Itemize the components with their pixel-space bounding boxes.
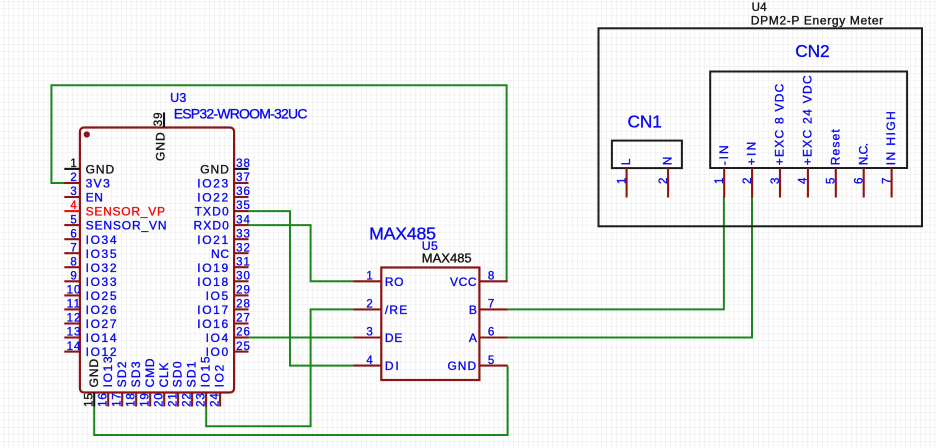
svg-text:5: 5 bbox=[826, 177, 838, 184]
svg-text:+EXC 8 VDC: +EXC 8 VDC bbox=[773, 82, 787, 165]
svg-text:29: 29 bbox=[236, 285, 251, 297]
svg-text:IO32: IO32 bbox=[86, 261, 119, 275]
U3 pin 7 IO35 (left) bbox=[64, 252, 80, 254]
svg-text:28: 28 bbox=[236, 299, 251, 311]
U3 pin 22 SD1 (bottom) bbox=[191, 393, 193, 407]
U3 pin 34 RXD0 (right) bbox=[234, 224, 249, 226]
svg-text:6: 6 bbox=[70, 228, 77, 240]
U3 pin 8 IO32 (left) bbox=[64, 266, 80, 268]
svg-text:9: 9 bbox=[70, 271, 77, 283]
svg-text:26: 26 bbox=[236, 327, 251, 339]
U5 pin 4 DI (left) bbox=[353, 365, 381, 367]
svg-text:19: 19 bbox=[139, 392, 151, 407]
svg-text:GND: GND bbox=[447, 359, 477, 373]
svg-text:SD0: SD0 bbox=[171, 360, 185, 387]
svg-text:18: 18 bbox=[125, 392, 137, 407]
svg-text:CN1: CN1 bbox=[628, 111, 662, 131]
svg-text:A: A bbox=[469, 331, 477, 345]
U3 pin 39 GND (top) bbox=[163, 112, 165, 127]
svg-text:22: 22 bbox=[181, 392, 193, 407]
svg-text:6: 6 bbox=[854, 177, 866, 184]
svg-text:CLK: CLK bbox=[157, 362, 171, 387]
svg-text:IO4: IO4 bbox=[206, 331, 230, 345]
svg-text:NC: NC bbox=[211, 247, 230, 261]
U5 pin 8 VCC (right) bbox=[479, 280, 507, 282]
svg-text:IO35: IO35 bbox=[86, 247, 119, 261]
svg-text:7: 7 bbox=[488, 299, 495, 311]
svg-text:N: N bbox=[661, 156, 675, 165]
U3 pin 25 IO0 (right) bbox=[234, 351, 249, 353]
svg-text:12: 12 bbox=[67, 313, 82, 325]
svg-text:IO2: IO2 bbox=[213, 363, 227, 387]
svg-text:IO34: IO34 bbox=[86, 233, 119, 247]
wire net 3V3: U3 pin2 to U5 pin8 VCC bbox=[51, 85, 506, 281]
U3 pin 37 IO23 (right) bbox=[234, 182, 249, 184]
U3 pin 9 IO33 (left) bbox=[64, 280, 80, 282]
svg-text:3: 3 bbox=[770, 177, 782, 184]
svg-text:14: 14 bbox=[67, 341, 82, 353]
svg-text:8: 8 bbox=[70, 256, 77, 268]
energy meter U4 outline box bbox=[599, 28, 923, 226]
svg-text:IO22: IO22 bbox=[197, 191, 230, 205]
U3 pin 33 IO21 (right) bbox=[234, 238, 249, 240]
svg-text:+IN: +IN bbox=[745, 139, 759, 165]
U3 pin 10 IO25 (left) bbox=[64, 294, 80, 296]
svg-text:DPM2-P Energy Meter: DPM2-P Energy Meter bbox=[751, 14, 884, 28]
svg-text:35: 35 bbox=[236, 200, 251, 212]
svg-text:2: 2 bbox=[366, 299, 373, 311]
svg-text:20: 20 bbox=[153, 392, 165, 407]
svg-text:4: 4 bbox=[70, 200, 77, 212]
svg-text:11: 11 bbox=[67, 299, 82, 311]
svg-text:GND: GND bbox=[200, 163, 230, 177]
svg-text:33: 33 bbox=[236, 228, 251, 240]
svg-text:RXD0: RXD0 bbox=[194, 219, 230, 233]
U3 pin 12 IO27 (left) bbox=[64, 322, 80, 324]
svg-text:IO33: IO33 bbox=[86, 275, 119, 289]
svg-text:TXD0: TXD0 bbox=[195, 205, 230, 219]
svg-text:15: 15 bbox=[83, 392, 95, 407]
wire net IO15: U3 pin23 to U5 pin2 /RE bbox=[206, 309, 353, 426]
U3 pin 4 SENSOR_VP (left) bbox=[64, 210, 80, 212]
U3 pin 31 IO19 (right) bbox=[234, 266, 249, 268]
svg-text:VCC: VCC bbox=[450, 275, 477, 289]
svg-text:1: 1 bbox=[714, 177, 726, 184]
svg-text:IO17: IO17 bbox=[197, 303, 230, 317]
U3 pin 21 SD0 (bottom) bbox=[177, 393, 179, 407]
svg-text:2: 2 bbox=[658, 177, 670, 184]
CN2 pin 5 Reset bbox=[835, 168, 837, 198]
svg-text:4: 4 bbox=[366, 355, 373, 367]
wire net GND: U3 pin15 to U5 pin5 GND bbox=[94, 366, 507, 435]
svg-text:U4: U4 bbox=[752, 2, 768, 14]
svg-text:13: 13 bbox=[67, 327, 82, 339]
svg-text:U3: U3 bbox=[170, 91, 187, 105]
svg-text:37: 37 bbox=[236, 172, 251, 184]
RS-485 transceiver U5 body bbox=[381, 268, 479, 381]
svg-text:30: 30 bbox=[236, 271, 251, 283]
ESP32 module U3 body bbox=[80, 128, 234, 393]
U3 pin 30 IO18 (right) bbox=[234, 280, 249, 282]
svg-text:5: 5 bbox=[488, 355, 495, 367]
svg-text:34: 34 bbox=[236, 214, 251, 226]
svg-text:3V3: 3V3 bbox=[86, 177, 112, 191]
svg-text:IO15: IO15 bbox=[199, 355, 213, 388]
svg-text:17: 17 bbox=[111, 392, 123, 407]
U3 pin 29 IO5 (right) bbox=[234, 294, 249, 296]
U3 pin 13 IO14 (left) bbox=[64, 336, 80, 338]
svg-text:21: 21 bbox=[167, 392, 179, 407]
U3 pin 27 IO16 (right) bbox=[234, 322, 249, 324]
wire net A: U5 pin6 to CN2 pin2 +IN bbox=[508, 196, 752, 337]
U3 pin 6 IO34 (left) bbox=[64, 238, 80, 240]
svg-text:10: 10 bbox=[67, 285, 82, 297]
wire net IO4: U3 pin26 to U5 pin3 DE bbox=[249, 337, 354, 339]
svg-text:16: 16 bbox=[97, 392, 109, 407]
svg-text:ESP32-WROOM-32UC: ESP32-WROOM-32UC bbox=[174, 105, 308, 121]
svg-text:3: 3 bbox=[70, 186, 77, 198]
U5 pin 5 GND (right) bbox=[479, 365, 507, 367]
U3 pin 3 EN (left) bbox=[64, 196, 80, 198]
svg-text:IO13: IO13 bbox=[101, 355, 115, 388]
U3 pin 1 GND (left) bbox=[64, 168, 80, 170]
svg-text:38: 38 bbox=[236, 158, 251, 170]
connector CN1 body bbox=[612, 141, 682, 169]
svg-text:Reset: Reset bbox=[828, 128, 842, 165]
U3 pin 32 NC (right) bbox=[234, 252, 249, 254]
CN2 pin 6 N.C. bbox=[863, 168, 865, 198]
U3 pin 18 SD3 (bottom) bbox=[135, 393, 137, 407]
wire net B: U5 pin7 to CN2 pin1 -IN bbox=[508, 196, 724, 309]
svg-text:24: 24 bbox=[209, 392, 221, 407]
svg-text:IN HIGH: IN HIGH bbox=[884, 110, 898, 166]
svg-text:36: 36 bbox=[236, 186, 251, 198]
svg-text:IO19: IO19 bbox=[197, 261, 230, 275]
svg-text:7: 7 bbox=[881, 177, 893, 184]
svg-text:39: 39 bbox=[153, 112, 165, 127]
svg-text:RO: RO bbox=[385, 275, 404, 289]
CN1 pin 2 N bbox=[667, 168, 669, 197]
svg-text:8: 8 bbox=[488, 271, 495, 283]
svg-text:1: 1 bbox=[366, 271, 373, 283]
U5 pin 1 RO (left) bbox=[353, 280, 381, 282]
U3 pin 35 TXD0 (right) bbox=[234, 210, 249, 212]
svg-text:25: 25 bbox=[236, 341, 251, 353]
U5 pin 7 B (right) bbox=[479, 308, 507, 310]
svg-text:IO23: IO23 bbox=[197, 177, 230, 191]
svg-text:SENSOR_VP: SENSOR_VP bbox=[86, 205, 166, 219]
U5 pin 6 A (right) bbox=[479, 336, 507, 338]
connector CN2 body bbox=[710, 72, 907, 169]
svg-text:3: 3 bbox=[366, 327, 373, 339]
svg-text:GND: GND bbox=[87, 358, 101, 388]
svg-text:IO26: IO26 bbox=[86, 303, 119, 317]
svg-text:CMD: CMD bbox=[143, 358, 157, 388]
svg-text:1: 1 bbox=[616, 177, 628, 184]
CN2 pin 2 +IN bbox=[751, 168, 753, 198]
svg-text:4: 4 bbox=[798, 177, 810, 184]
U3 pin 23 IO15 (bottom) bbox=[205, 393, 207, 407]
svg-text:1: 1 bbox=[70, 158, 77, 170]
svg-text:GND: GND bbox=[154, 131, 168, 161]
CN2 pin 3 +EXC 8 VDC bbox=[779, 168, 781, 198]
svg-text:DI: DI bbox=[385, 359, 401, 373]
U3 pin 36 IO22 (right) bbox=[234, 196, 249, 198]
U3 pin 11 IO26 (left) bbox=[64, 308, 80, 310]
svg-text:IO18: IO18 bbox=[197, 275, 230, 289]
svg-text:GND: GND bbox=[86, 163, 116, 177]
svg-text:31: 31 bbox=[236, 256, 251, 268]
svg-text:SD1: SD1 bbox=[185, 360, 199, 387]
svg-text:IO14: IO14 bbox=[86, 331, 119, 345]
U3 pin 19 CMD (bottom) bbox=[149, 393, 151, 407]
svg-text:MAX485: MAX485 bbox=[422, 250, 472, 265]
svg-text:IO25: IO25 bbox=[86, 289, 119, 303]
U3 pin 20 CLK (bottom) bbox=[163, 393, 165, 407]
U3 pin 16 IO13 (bottom) bbox=[107, 393, 109, 407]
svg-text:2: 2 bbox=[742, 177, 754, 184]
svg-text:2: 2 bbox=[70, 172, 77, 184]
wire net TXD0: U3 pin35 to U5 pin4 DI bbox=[249, 211, 354, 366]
CN2 pin 7 IN HIGH bbox=[891, 168, 893, 198]
svg-text:SENSOR_VN: SENSOR_VN bbox=[86, 219, 168, 233]
CN2 pin 4 +EXC 24 VDC bbox=[807, 168, 809, 198]
svg-text:SD2: SD2 bbox=[115, 360, 129, 387]
U3 pin 28 IO17 (right) bbox=[234, 308, 249, 310]
svg-text:N.C.: N.C. bbox=[856, 143, 870, 165]
U3 pin 5 SENSOR_VN (left) bbox=[64, 224, 80, 226]
svg-text:IO27: IO27 bbox=[86, 317, 119, 331]
svg-text:IO5: IO5 bbox=[206, 289, 230, 303]
svg-text:7: 7 bbox=[70, 242, 77, 254]
svg-text:CN2: CN2 bbox=[795, 41, 829, 61]
svg-text:SD3: SD3 bbox=[129, 360, 143, 387]
U3 pin 2 3V3 (left) bbox=[64, 182, 80, 184]
svg-text:/RE: /RE bbox=[385, 303, 408, 317]
U3 pin 15 GND (bottom) bbox=[93, 393, 95, 407]
CN2 pin 1 -IN bbox=[723, 168, 725, 198]
CN1 pin 1 L bbox=[626, 168, 628, 197]
svg-text:-IN: -IN bbox=[717, 143, 731, 165]
U5 pin 2 /RE (left) bbox=[353, 308, 381, 310]
U3 pin 24 IO2 (bottom) bbox=[219, 393, 221, 407]
svg-text:+EXC 24 VDC: +EXC 24 VDC bbox=[801, 74, 815, 165]
svg-text:B: B bbox=[469, 303, 477, 317]
svg-text:EN: EN bbox=[86, 191, 104, 205]
U3 pin 38 GND (right) bbox=[234, 168, 249, 170]
wire net RXD0: U3 pin34 to U5 pin1 RO bbox=[249, 225, 354, 281]
svg-text:IO21: IO21 bbox=[197, 233, 230, 247]
svg-text:32: 32 bbox=[236, 242, 251, 254]
svg-text:27: 27 bbox=[236, 313, 251, 325]
U5 pin 3 DE (left) bbox=[353, 336, 381, 338]
svg-text:23: 23 bbox=[195, 392, 207, 407]
svg-text:L: L bbox=[619, 158, 633, 165]
U3 pin 26 IO4 (right) bbox=[234, 336, 249, 338]
U3 pin 14 IO12 (left) bbox=[64, 351, 80, 353]
U3 pin 17 SD2 (bottom) bbox=[121, 393, 123, 407]
U3 pin-1 marker dot bbox=[84, 131, 90, 137]
svg-text:IO16: IO16 bbox=[197, 317, 230, 331]
svg-text:6: 6 bbox=[488, 327, 495, 339]
svg-text:DE: DE bbox=[385, 331, 403, 345]
svg-text:5: 5 bbox=[70, 214, 77, 226]
